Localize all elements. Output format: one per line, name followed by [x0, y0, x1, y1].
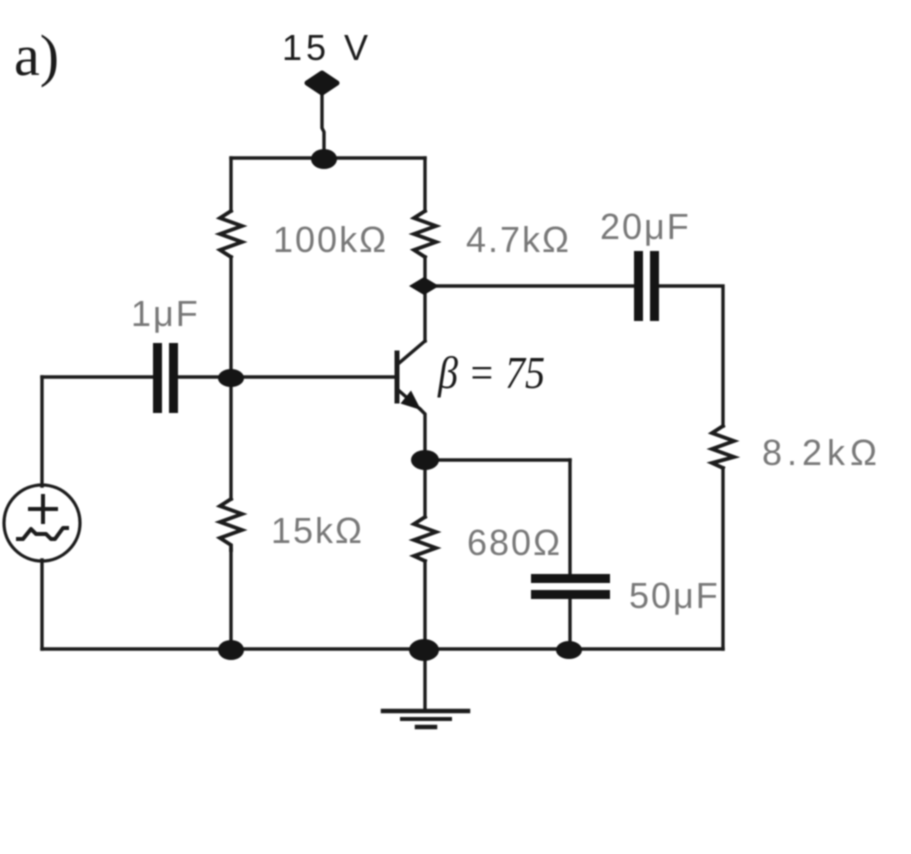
svg-text:β = 75: β = 75 — [437, 348, 545, 398]
wire emitter node to 680 — [423, 460, 426, 517]
transistor collector diagonal — [398, 341, 425, 364]
wire input left segment (to 1uF) — [42, 375, 153, 378]
wire collector to 20uF — [425, 284, 634, 287]
svg-text:8.2kΩ: 8.2kΩ — [762, 432, 882, 473]
wire ground stem — [423, 649, 426, 711]
svg-text:15kΩ: 15kΩ — [271, 510, 364, 551]
wire left column mid (100k to base junction to 15k) — [229, 257, 232, 499]
wire left column bottom (15k to bottom rail) — [229, 550, 232, 649]
svg-text:680Ω: 680Ω — [467, 522, 562, 563]
wire 50uF column top — [568, 460, 571, 574]
node rail junction — [311, 149, 337, 169]
svg-text:1μF: 1μF — [131, 293, 200, 334]
ac source sine wave — [18, 528, 67, 539]
ground bar 2 — [402, 717, 450, 721]
capacitor 1uF plates — [153, 343, 162, 413]
ground bar 3 — [417, 725, 435, 730]
wire left column (input down to source) — [40, 377, 43, 486]
wire 1uF to base junction and base — [178, 375, 397, 378]
node collector — [409, 277, 439, 295]
node bottom left junction — [218, 640, 244, 660]
wire top rail — [231, 156, 425, 159]
capacitor 50uF plates — [531, 574, 610, 583]
resistor 680 zigzag — [414, 517, 436, 561]
wire collector node to transistor — [423, 286, 426, 341]
wire 680 to bottom rail — [423, 561, 426, 649]
wire emitter to emitter node — [420, 409, 425, 460]
15V terminal diamond — [307, 73, 337, 93]
svg-text:100kΩ: 100kΩ — [273, 219, 388, 260]
node emitter — [411, 450, 439, 470]
wire right column bottom — [721, 468, 724, 649]
wire left column top (rail to 100k) — [229, 158, 232, 211]
svg-text:50μF: 50μF — [629, 575, 720, 616]
wire collector column top (rail to 4.7k) — [423, 158, 426, 211]
svg-text:a): a) — [14, 23, 59, 88]
svg-text:15 V: 15 V — [282, 27, 372, 68]
resistor 100k zigzag — [220, 211, 242, 257]
wire 50uF column bottom — [568, 599, 571, 650]
ac source plus sign — [30, 496, 56, 522]
ac source circle — [4, 485, 80, 561]
capacitor 20uF plates — [634, 251, 643, 321]
svg-text:4.7kΩ: 4.7kΩ — [466, 219, 571, 260]
wire 15V stem — [322, 92, 324, 158]
svg-text:20μF: 20μF — [600, 206, 691, 247]
transistor emitter arrowhead — [401, 391, 422, 411]
transistor emitter diagonal — [397, 389, 420, 409]
wire 20uF to right corner — [658, 286, 723, 426]
wire source to bottom rail — [40, 560, 43, 649]
wire 4.7k to collector node — [423, 257, 426, 286]
wire bottom rail — [42, 647, 723, 650]
resistor 4.7k zigzag — [414, 211, 436, 257]
node base junction — [218, 369, 244, 387]
wire emitter horizontal to 50uF branch — [425, 458, 570, 461]
node bottom center junction — [409, 639, 439, 661]
node bottom 50uF junction — [556, 641, 582, 659]
ground bar 1 — [383, 709, 468, 714]
resistor 15k zigzag — [220, 499, 242, 550]
resistor 8.2k zigzag — [712, 426, 734, 468]
transistor base bar — [395, 353, 400, 401]
